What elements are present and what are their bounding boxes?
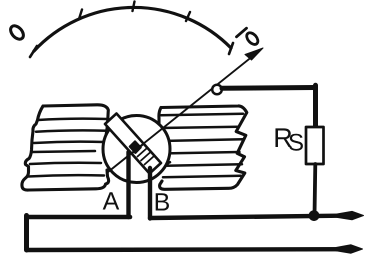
top arrow bbox=[337, 211, 364, 219]
terminal circle on needle bbox=[212, 85, 222, 95]
wire terminal to right bbox=[222, 85, 315, 91]
winding hatch bbox=[134, 145, 154, 165]
tick 7.5 bbox=[186, 12, 190, 21]
left coil bbox=[22, 105, 109, 190]
wire B vertical bbox=[148, 168, 152, 219]
label 0 bbox=[8, 23, 26, 41]
wire left vertical bbox=[24, 216, 29, 251]
wire B horizontal right bbox=[150, 216, 340, 218]
svg-text:A: A bbox=[103, 188, 120, 216]
label 10 digit 0 bbox=[245, 31, 260, 47]
label 10 digit 1 bbox=[237, 28, 247, 37]
wire resistor to junction bbox=[313, 164, 318, 216]
moving-coil circle bbox=[103, 116, 170, 183]
wire down to resistor bbox=[313, 85, 318, 128]
tick 2.5 bbox=[79, 10, 82, 20]
coil frame (tilted rectangle) bbox=[105, 114, 161, 174]
wire A horizontal left bbox=[27, 215, 131, 220]
tick 0 (left end) bbox=[30, 46, 37, 57]
right coil bbox=[159, 106, 247, 189]
svg-text:S: S bbox=[288, 130, 304, 157]
pivot square bbox=[130, 141, 141, 153]
wire A vertical bbox=[126, 152, 130, 217]
needle bbox=[108, 54, 256, 173]
scale arc bbox=[34, 7, 231, 51]
junction dot bbox=[309, 210, 320, 221]
resistor Rs body bbox=[306, 127, 324, 164]
tick 5 bbox=[133, 2, 135, 12]
needle arrowhead bbox=[245, 48, 263, 60]
wire bottom horizontal bbox=[27, 247, 349, 252]
svg-text:B: B bbox=[154, 189, 171, 217]
bottom arrow bbox=[336, 245, 363, 253]
tick 10 (right end) bbox=[229, 43, 233, 54]
